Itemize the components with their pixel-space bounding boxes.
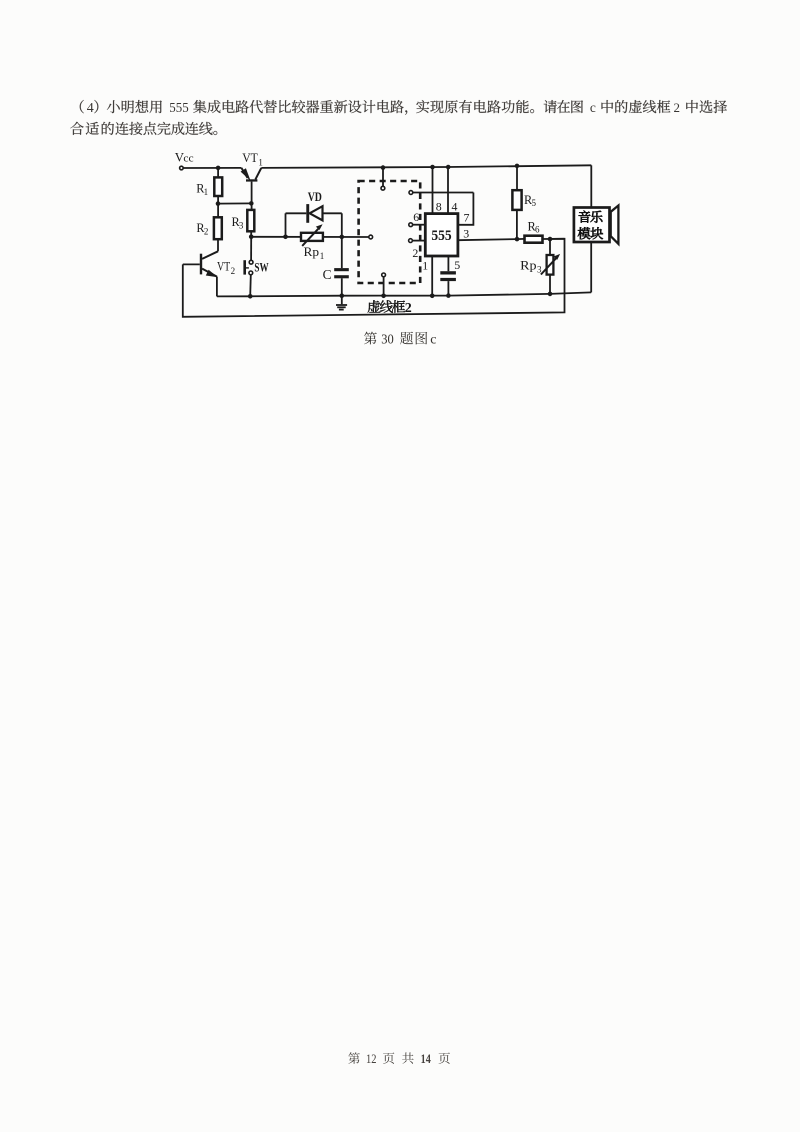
svg-text:VD: VD [308, 190, 322, 204]
svg-text:3: 3 [239, 220, 244, 230]
svg-text:14: 14 [421, 1052, 432, 1066]
svg-text:Rp: Rp [520, 259, 536, 273]
svg-text:c: c [430, 332, 436, 347]
svg-text:cc: cc [183, 154, 194, 165]
svg-text:30: 30 [381, 331, 394, 346]
svg-text:2: 2 [204, 227, 209, 237]
svg-text:4: 4 [87, 101, 94, 116]
svg-text:1: 1 [204, 187, 209, 197]
svg-text:8: 8 [436, 199, 442, 213]
svg-text:2: 2 [231, 266, 236, 276]
svg-text:6: 6 [535, 225, 540, 235]
svg-text:C: C [323, 267, 332, 282]
svg-text:3: 3 [537, 265, 542, 275]
svg-text:c: c [590, 100, 596, 115]
svg-text:2: 2 [405, 301, 412, 316]
svg-text:SW: SW [254, 261, 268, 275]
svg-text:7: 7 [464, 211, 470, 225]
svg-text:4: 4 [452, 199, 458, 213]
svg-text:5: 5 [454, 258, 460, 272]
svg-text:2: 2 [412, 246, 418, 260]
svg-text:1: 1 [320, 251, 325, 261]
svg-text:12: 12 [366, 1052, 377, 1066]
svg-text:1: 1 [258, 158, 263, 168]
svg-text:VT: VT [242, 151, 258, 165]
svg-text:1: 1 [422, 258, 428, 272]
svg-text:555: 555 [431, 228, 451, 244]
svg-text:Rp: Rp [304, 245, 320, 259]
svg-text:3: 3 [463, 227, 469, 241]
svg-text:555: 555 [169, 100, 189, 115]
svg-text:6: 6 [413, 210, 419, 224]
svg-text:VT: VT [217, 260, 231, 274]
svg-text:2: 2 [674, 100, 681, 115]
svg-text:5: 5 [532, 198, 537, 208]
